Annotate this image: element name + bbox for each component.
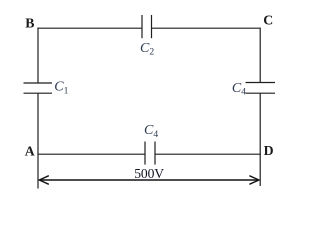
- svg-text:C2: C2: [140, 41, 154, 58]
- svg-text:B: B: [25, 16, 34, 31]
- wire top-right segment C2 to C: [152, 27, 261, 29]
- capacitor C1 plates: [24, 82, 53, 84]
- capacitor C4 bottom plates: [144, 142, 146, 165]
- capacitor C4 right plates: [246, 82, 276, 84]
- svg-text:C4: C4: [144, 123, 158, 140]
- wire right lower segment C4 to D and extension below: [259, 93, 261, 186]
- svg-text:D: D: [264, 143, 274, 158]
- arrowhead right: [249, 176, 259, 185]
- arrowhead left: [39, 176, 49, 185]
- svg-text:A: A: [25, 144, 35, 159]
- wire bottom-right segment C4 to D: [155, 153, 261, 155]
- capacitor C2 plates: [141, 15, 143, 38]
- wire left upper segment B to C1: [37, 28, 39, 83]
- svg-text:C4: C4: [232, 81, 246, 98]
- svg-text:500V: 500V: [134, 166, 164, 181]
- wire top-left segment B to C2: [37, 27, 142, 29]
- dimension line 500V: [40, 179, 259, 181]
- wire left lower segment C1 to A and extension below: [37, 93, 39, 188]
- wire right upper segment C to C4: [259, 28, 261, 83]
- svg-text:C: C: [263, 13, 273, 28]
- wire bottom-left segment A to C4: [37, 153, 145, 155]
- svg-text:C1: C1: [54, 80, 68, 97]
